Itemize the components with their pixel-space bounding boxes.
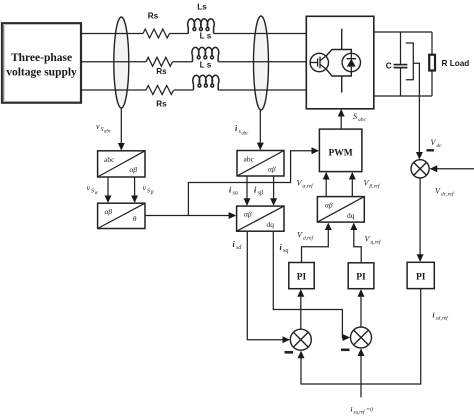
svg-text:dq: dq	[347, 211, 355, 220]
measurement ellipse (current sensor)	[254, 16, 269, 110]
wire phase A middle	[170, 33, 189, 35]
resistor R Load	[429, 55, 435, 71]
label isbeta	[254, 186, 263, 197]
wire isq,ref=0 stub to S2	[360, 350, 362, 398]
svg-text:Rs: Rs	[148, 12, 159, 21]
svg-text:S: S	[91, 189, 94, 195]
svg-text:abc: abc	[104, 155, 115, 164]
diode D1 circle	[342, 53, 360, 71]
wire Vdc,ref	[431, 168, 474, 170]
svg-text:dc,ref: dc,ref	[441, 191, 455, 198]
svg-text:abc: abc	[244, 155, 255, 164]
svg-text:=0: =0	[366, 408, 373, 414]
wire phase C right segment	[218, 89, 306, 91]
svg-text:αβ: αβ	[325, 201, 333, 210]
label Vbeta,ref	[364, 179, 381, 190]
label vSalpha	[87, 184, 98, 197]
svg-text:Three-phase: Three-phase	[11, 52, 72, 64]
svg-text:α,ref: α,ref	[303, 183, 315, 190]
wire phase A right segment	[214, 33, 306, 35]
transform box T3 abc->alphabeta (current)	[237, 151, 284, 177]
svg-text:voltage supply: voltage supply	[6, 67, 77, 79]
inductor Ls phase A	[188, 19, 215, 34]
label Vdc,ref	[435, 187, 455, 198]
svg-text:αβ: αβ	[105, 207, 113, 216]
svg-text:q,ref: q,ref	[371, 239, 383, 246]
svg-text:sd,ref: sd,ref	[436, 315, 450, 322]
minus sign S2	[341, 348, 350, 351]
wire isabc : ellipse to abc/ab box	[259, 110, 261, 149]
PI controller PI3 (Vdc)	[407, 262, 434, 288]
svg-text:θ: θ	[133, 214, 137, 223]
svg-text:αβ: αβ	[130, 165, 138, 174]
resistor Rs phase B	[146, 57, 172, 66]
wire isd,ref : PI3 to S1	[301, 289, 421, 384]
svg-text:v: v	[96, 122, 100, 131]
wire phase B right segment	[218, 61, 310, 63]
transform box T4 alphabeta->dq (current)	[237, 206, 284, 231]
svg-text:L s: L s	[200, 60, 212, 69]
Vdc sense bracket	[406, 43, 414, 80]
measurement ellipse (voltage sensor)	[114, 17, 129, 108]
wire phase A left segment	[81, 33, 143, 35]
wire phase C middle	[174, 89, 194, 91]
svg-text:i: i	[433, 312, 435, 320]
capacitor C bottom lead	[400, 68, 402, 96]
wire S3 to PI3	[419, 178, 421, 261]
summing junction S2 (q axis)	[351, 327, 372, 348]
wire theta branch to PWM	[188, 151, 318, 216]
capacitor C top lead	[400, 32, 402, 65]
svg-text:dq: dq	[267, 220, 275, 229]
three-phase source box	[2, 23, 81, 103]
DC bus right wire (load branch)	[431, 32, 433, 55]
transform box T1 abc->alphabeta (voltage)	[98, 151, 145, 177]
wire phase C left segment	[81, 89, 146, 91]
svg-text:Rs: Rs	[156, 99, 167, 108]
svg-text:v: v	[143, 184, 147, 193]
wire isq	[273, 231, 349, 337]
Vdc sense wire	[413, 63, 419, 158]
label Valpha,ref	[297, 179, 315, 190]
svg-text:α: α	[95, 190, 98, 196]
label vSbeta	[143, 184, 154, 197]
wire Vbeta,ref	[351, 173, 353, 197]
label isq,ref=0	[351, 407, 374, 416]
transform box T2 alphabeta->theta (PLL)	[98, 203, 145, 228]
wire Sabc : PWM to converter	[340, 110, 342, 129]
svg-text:L s: L s	[200, 31, 212, 40]
PI controller PI2 (q)	[348, 263, 374, 289]
svg-text:abc: abc	[242, 132, 250, 137]
resistor Rs phase A	[143, 29, 169, 38]
minus sign S1	[285, 351, 294, 354]
wire vSbeta	[134, 177, 136, 202]
wire Vd,ref : PI1 to T5	[302, 224, 329, 263]
wire isd	[247, 231, 289, 340]
svg-text:sd: sd	[236, 245, 242, 251]
wire S1 to PI1	[300, 290, 302, 329]
wire Valpha,ref	[325, 173, 327, 197]
PI controller PI1 (d)	[289, 263, 314, 289]
label Vd,ref	[297, 231, 315, 242]
label isalpha	[229, 186, 239, 197]
svg-text:PI: PI	[297, 273, 307, 283]
label isd,ref	[433, 312, 450, 322]
label isd	[233, 240, 243, 251]
svg-text:sq: sq	[283, 248, 288, 254]
svg-text:Ls: Ls	[197, 3, 207, 12]
wire Vq,ref : PI2 to T5	[354, 224, 361, 263]
wire phase B middle	[173, 61, 193, 63]
inductor Ls phase B	[192, 47, 219, 61]
svg-text:PI: PI	[356, 273, 366, 283]
svg-text:abc: abc	[104, 130, 112, 135]
svg-text:sβ: sβ	[258, 191, 263, 197]
wire S2 to PI2	[360, 290, 362, 327]
resistor Rs phase C	[146, 86, 174, 95]
IGBT cell connecting wires	[326, 29, 351, 93]
DC bus top wire	[374, 31, 432, 33]
svg-text:v: v	[87, 184, 91, 193]
converter box U1	[306, 16, 374, 109]
summing junction S3 (Vdc)	[411, 160, 429, 178]
svg-text:S: S	[147, 189, 150, 195]
wire Vsabc : ellipse to abc/ab box	[120, 108, 122, 150]
svg-text:i: i	[351, 407, 353, 414]
svg-text:sq,ref: sq,ref	[354, 411, 366, 416]
label Vdc	[431, 138, 443, 149]
label Sabc	[353, 111, 367, 123]
summing junction S1 (d axis)	[290, 329, 311, 350]
transform box T5 dq->alphabeta (inverse)	[317, 197, 364, 223]
wire theta : T2 output to T4	[145, 215, 235, 217]
svg-text:sα: sα	[233, 191, 239, 197]
svg-text:PI: PI	[416, 273, 426, 283]
IGBT Q1 circle	[310, 53, 328, 71]
svg-text:β: β	[150, 190, 154, 196]
diode D1 symbol	[347, 53, 356, 71]
svg-text:αβ: αβ	[268, 165, 276, 174]
IGBT Q1 symbol	[310, 56, 326, 68]
svg-text:β,ref: β,ref	[369, 183, 381, 190]
PWM box	[319, 129, 362, 172]
wire phase B left segment	[81, 61, 146, 63]
svg-text:PWM: PWM	[328, 149, 352, 159]
inductor Ls phase C	[193, 75, 219, 90]
svg-text:C: C	[386, 62, 392, 71]
label isabc	[235, 124, 249, 137]
svg-text:abc: abc	[358, 117, 367, 123]
svg-text:d,ref: d,ref	[303, 235, 315, 242]
minus sign S3	[427, 149, 435, 151]
label isq	[280, 243, 289, 254]
capacitor C plates	[394, 64, 408, 66]
DC bus bottom wire	[374, 95, 432, 97]
svg-text:αβ: αβ	[244, 210, 252, 219]
label vSabc	[96, 122, 112, 135]
svg-text:R Load: R Load	[442, 59, 470, 68]
wire isalpha	[246, 176, 248, 205]
wire vSalpha	[107, 177, 109, 202]
wire isbeta	[273, 176, 275, 205]
svg-text:dc: dc	[437, 143, 443, 149]
svg-text:Rs: Rs	[156, 67, 167, 76]
label Vq,ref	[365, 235, 383, 246]
